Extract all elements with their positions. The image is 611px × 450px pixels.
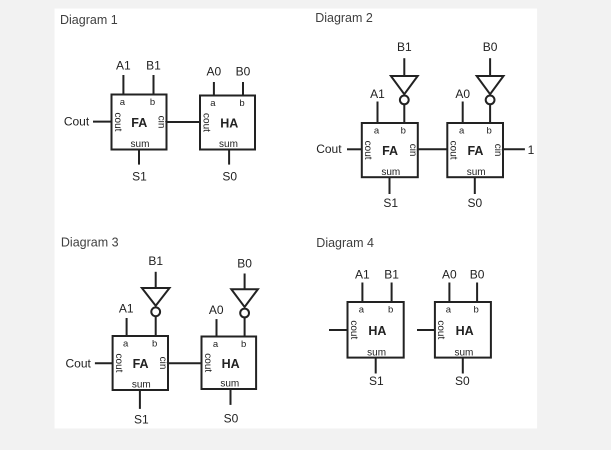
svg-text:A0: A0 xyxy=(209,303,224,317)
svg-text:S1: S1 xyxy=(132,169,147,183)
svg-text:B0: B0 xyxy=(236,64,251,78)
svg-text:b: b xyxy=(401,125,406,136)
svg-text:HA: HA xyxy=(222,357,240,371)
svg-text:a: a xyxy=(374,125,380,136)
svg-text:A0: A0 xyxy=(207,64,222,78)
svg-text:A0: A0 xyxy=(455,87,470,101)
svg-text:a: a xyxy=(210,98,216,109)
svg-text:cout: cout xyxy=(362,141,373,160)
svg-text:cin: cin xyxy=(156,116,167,129)
svg-text:cout: cout xyxy=(448,141,459,160)
svg-text:b: b xyxy=(152,338,157,349)
svg-text:b: b xyxy=(486,125,491,136)
svg-text:S1: S1 xyxy=(383,196,398,210)
svg-text:Diagram 4: Diagram 4 xyxy=(316,236,374,250)
svg-text:A1: A1 xyxy=(119,302,134,316)
svg-text:S1: S1 xyxy=(134,412,149,426)
svg-text:B1: B1 xyxy=(146,59,161,73)
svg-text:A0: A0 xyxy=(442,267,457,281)
svg-text:1: 1 xyxy=(528,143,535,157)
svg-text:sum: sum xyxy=(219,139,238,150)
svg-text:sum: sum xyxy=(454,347,473,358)
svg-text:FA: FA xyxy=(131,116,147,130)
svg-text:HA: HA xyxy=(220,117,238,131)
svg-text:sum: sum xyxy=(367,347,386,358)
svg-text:cout: cout xyxy=(435,320,446,339)
svg-text:cout: cout xyxy=(112,113,123,132)
svg-text:sum: sum xyxy=(220,379,239,390)
svg-text:Cout: Cout xyxy=(316,142,342,156)
svg-text:cin: cin xyxy=(492,144,503,157)
svg-text:A1: A1 xyxy=(355,267,370,281)
svg-text:Diagram 1: Diagram 1 xyxy=(60,13,118,27)
svg-text:Cout: Cout xyxy=(64,114,90,128)
svg-text:sum: sum xyxy=(467,167,486,178)
svg-text:a: a xyxy=(120,97,126,108)
svg-text:S0: S0 xyxy=(224,412,239,426)
svg-text:cout: cout xyxy=(202,353,213,372)
svg-text:a: a xyxy=(213,339,219,350)
svg-text:b: b xyxy=(388,304,393,315)
svg-text:b: b xyxy=(239,98,244,109)
svg-text:cin: cin xyxy=(157,357,168,370)
svg-text:sum: sum xyxy=(381,167,400,178)
svg-text:FA: FA xyxy=(467,144,483,158)
svg-text:B0: B0 xyxy=(237,257,252,271)
svg-text:b: b xyxy=(473,304,478,315)
svg-text:a: a xyxy=(123,338,129,349)
svg-text:a: a xyxy=(446,304,452,315)
svg-text:cout: cout xyxy=(113,354,124,373)
svg-text:cin: cin xyxy=(407,144,418,157)
svg-text:S0: S0 xyxy=(455,374,470,388)
svg-text:a: a xyxy=(459,125,465,136)
svg-text:S1: S1 xyxy=(369,374,384,388)
svg-text:Diagram 3: Diagram 3 xyxy=(61,236,119,250)
svg-text:A1: A1 xyxy=(370,87,385,101)
svg-text:cout: cout xyxy=(200,113,211,132)
svg-text:sum: sum xyxy=(132,380,151,391)
svg-text:B1: B1 xyxy=(384,267,399,281)
svg-text:A1: A1 xyxy=(116,59,131,73)
svg-text:B0: B0 xyxy=(470,267,485,281)
svg-text:S0: S0 xyxy=(222,169,237,183)
svg-text:sum: sum xyxy=(131,139,150,150)
svg-text:Diagram 2: Diagram 2 xyxy=(315,11,373,25)
svg-text:B0: B0 xyxy=(483,40,498,54)
svg-text:cout: cout xyxy=(348,320,359,339)
svg-text:b: b xyxy=(241,339,246,350)
svg-text:Cout: Cout xyxy=(66,356,92,370)
svg-text:HA: HA xyxy=(368,324,386,338)
svg-text:B1: B1 xyxy=(148,254,163,268)
svg-text:FA: FA xyxy=(382,144,398,158)
svg-text:FA: FA xyxy=(133,357,149,371)
svg-text:S0: S0 xyxy=(467,196,482,210)
svg-text:a: a xyxy=(359,304,365,315)
svg-text:b: b xyxy=(150,97,155,108)
svg-text:B1: B1 xyxy=(397,40,412,54)
svg-text:HA: HA xyxy=(456,324,474,338)
